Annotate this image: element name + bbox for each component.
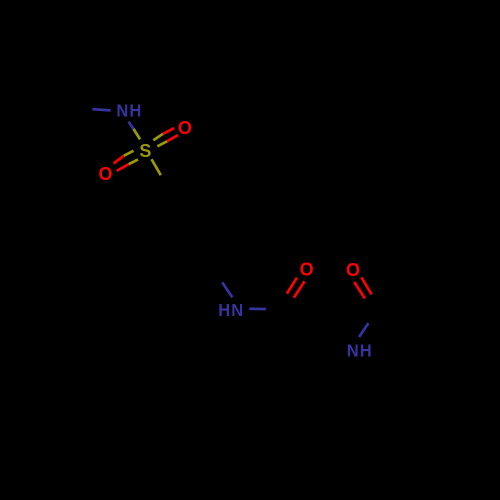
svg-text:O: O	[346, 260, 360, 280]
svg-text:O: O	[98, 164, 112, 184]
svg-text:O: O	[300, 260, 314, 280]
svg-text:NH: NH	[347, 340, 373, 361]
svg-text:HN: HN	[218, 299, 244, 320]
svg-text:NH: NH	[116, 100, 142, 121]
svg-text:S: S	[139, 141, 151, 161]
svg-text:O: O	[178, 118, 192, 138]
